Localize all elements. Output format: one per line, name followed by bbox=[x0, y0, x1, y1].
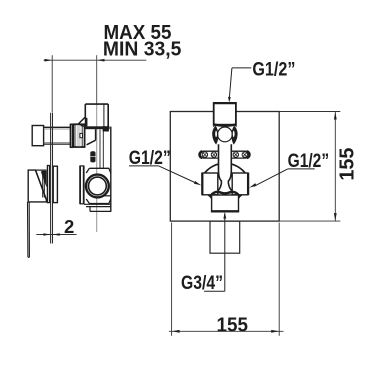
wall extension line bbox=[96, 55, 98, 104]
vertical 155 dimension bbox=[279, 112, 340, 222]
svg-text:155: 155 bbox=[337, 148, 359, 181]
G3/4 outlet rect bbox=[210, 221, 240, 253]
top pipe box bbox=[85, 104, 108, 127]
svg-text:2: 2 bbox=[64, 216, 74, 237]
side port rect left bbox=[202, 173, 218, 195]
svg-text:MIN 33,5: MIN 33,5 bbox=[103, 39, 181, 61]
side port rect right bbox=[232, 173, 248, 195]
funnel transition bbox=[87, 129, 96, 145]
pipe inner wall line bbox=[103, 105, 105, 127]
center body hourglass bbox=[216, 143, 235, 192]
nut shading bbox=[77, 125, 81, 146]
bracket screw holes bbox=[202, 152, 247, 157]
arrow right (tip at wall) bbox=[97, 59, 105, 62]
svg-text:G3/4”: G3/4” bbox=[181, 273, 223, 294]
bottom 155 dimension bbox=[169, 223, 284, 336]
wall centerline bbox=[96, 104, 98, 232]
nut block bbox=[73, 124, 84, 147]
corner wedge right bbox=[238, 195, 242, 199]
handle collar bar bbox=[47, 166, 49, 203]
spout end cap bbox=[32, 126, 43, 146]
bottom port rect bbox=[212, 195, 239, 211]
valve flange tall bar bbox=[80, 166, 84, 205]
ball crescent right bbox=[231, 126, 237, 145]
svg-text:G1/2”: G1/2” bbox=[252, 58, 295, 80]
bracket bar bbox=[200, 151, 249, 158]
port ring inner bbox=[89, 177, 107, 195]
dimension line MAX55/MIN33,5 bbox=[44, 55, 147, 112]
body bottom lines bbox=[84, 196, 111, 212]
clip notch bbox=[80, 133, 83, 137]
svg-text:155: 155 bbox=[217, 313, 249, 336]
rear collar bar bbox=[53, 166, 57, 202]
cartridge dome circle bbox=[218, 127, 233, 142]
set screw (black bolt) bbox=[90, 151, 95, 162]
handle body (trapezoid) bbox=[28, 170, 46, 202]
arrow left (tip at plate) bbox=[45, 59, 53, 62]
handle inner bar bbox=[42, 174, 44, 198]
port ring outer bbox=[86, 175, 109, 198]
spout tube bbox=[44, 127, 71, 144]
body inner lines bbox=[102, 130, 104, 169]
top fitting bbox=[214, 103, 236, 125]
dimension 2 bbox=[36, 234, 76, 236]
ball crescent left bbox=[212, 126, 218, 145]
body octagon around ring bbox=[86, 168, 111, 203]
top G1/2 leader bbox=[232, 67, 251, 69]
valve body dome arcs bbox=[204, 163, 247, 174]
mounting flange bar (dark) bbox=[85, 126, 110, 129]
handle wedge shadow bbox=[42, 171, 47, 186]
wall plate (2mm, edge view) bbox=[51, 113, 53, 244]
plate square bbox=[170, 112, 279, 222]
chamfer cone bbox=[78, 117, 87, 127]
body right edge bbox=[110, 127, 112, 212]
G3/4 leader bbox=[224, 214, 226, 292]
handle lever bbox=[28, 202, 30, 257]
flange end block bbox=[103, 126, 109, 131]
skirt mound (thick) bbox=[211, 192, 238, 195]
tube flange bbox=[70, 124, 72, 147]
corner wedge left bbox=[207, 195, 211, 199]
